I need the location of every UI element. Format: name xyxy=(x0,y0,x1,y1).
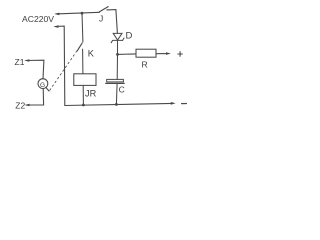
terminal arrow L2 xyxy=(53,25,58,28)
wire sensor to Z2 xyxy=(27,89,44,106)
gas sensor G xyxy=(38,79,48,89)
capacitor C electrolytic xyxy=(106,79,125,83)
svg-text:JR: JR xyxy=(85,88,97,98)
svg-text:C: C xyxy=(119,85,125,95)
wire junction to K xyxy=(81,13,84,42)
wire diode to node xyxy=(117,40,119,54)
svg-text:Z2: Z2 xyxy=(15,101,25,111)
terminal arrow L1 xyxy=(54,13,59,16)
wire relay coil to bottom rail xyxy=(82,85,84,105)
diode D zener xyxy=(111,33,124,42)
terminal arrow Z1 xyxy=(24,59,29,62)
wire node to R xyxy=(118,53,137,56)
linkage tick at sensor edge xyxy=(46,87,49,91)
svg-text:J: J xyxy=(99,14,103,24)
wire Z1 to sensor xyxy=(26,60,44,79)
terminal arrow - output xyxy=(171,102,176,105)
junction node bottom JR xyxy=(82,104,85,107)
relay coil JR xyxy=(74,74,96,86)
label minus xyxy=(182,103,187,105)
terminal arrow Z2 xyxy=(24,104,29,107)
wire top L1 xyxy=(56,12,100,14)
wire capacitor to bottom rail xyxy=(115,83,118,104)
svg-text:AC220V: AC220V xyxy=(22,14,54,24)
wire K to relay coil xyxy=(82,49,84,74)
terminal arrow + output xyxy=(166,52,171,55)
switch K blade xyxy=(77,43,82,51)
wire node to capacitor xyxy=(116,54,118,79)
svg-text:G: G xyxy=(40,82,45,89)
svg-text:R: R xyxy=(142,60,148,70)
junction node top xyxy=(81,12,84,15)
junction node mid xyxy=(116,53,119,56)
svg-text:D: D xyxy=(126,30,133,41)
label plus xyxy=(178,52,183,57)
wire R to + output xyxy=(156,53,168,55)
wire J right terminal xyxy=(107,10,118,34)
svg-text:K: K xyxy=(88,48,95,58)
wire L2 to left branch xyxy=(55,26,65,105)
junction node bottom C xyxy=(115,103,118,106)
resistor R xyxy=(136,49,156,57)
switch J blade xyxy=(99,7,108,12)
bottom rail wire xyxy=(65,103,173,105)
dashed linkage sensor to K xyxy=(50,47,80,90)
svg-text:Z1: Z1 xyxy=(15,57,25,67)
